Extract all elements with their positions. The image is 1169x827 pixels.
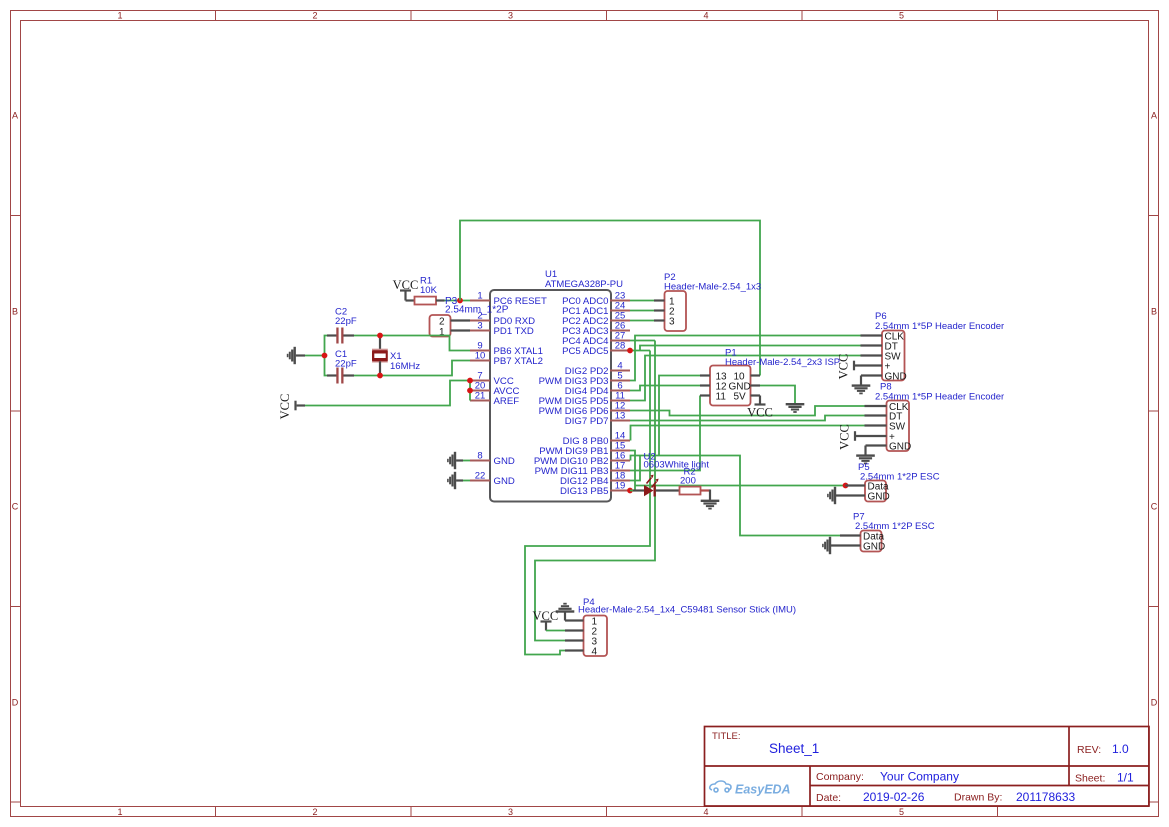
P3 value label <box>445 305 509 316</box>
svg-text:16MHz: 16MHz <box>390 361 420 372</box>
connector P6 body <box>882 331 907 383</box>
wire pin12 to P8 CLK <box>630 406 865 416</box>
microcontroller U1 ATMEGA328P-PU body <box>490 290 611 502</box>
svg-text:PC5 ADC5: PC5 ADC5 <box>562 346 608 357</box>
svg-text:TITLE:: TITLE: <box>712 731 741 742</box>
connector P8 body <box>887 401 912 453</box>
wire P6 CLK net <box>630 336 861 381</box>
svg-text:AREF: AREF <box>494 396 520 407</box>
svg-text:200: 200 <box>680 476 696 487</box>
svg-text:Your Company: Your Company <box>880 770 959 784</box>
wire R1 to node RESET <box>445 300 471 302</box>
U1 pin 22 GND <box>470 471 515 488</box>
P2 pin leads <box>654 301 665 321</box>
svg-text:3: 3 <box>508 807 513 817</box>
ground (P4 pin1) <box>556 603 575 621</box>
svg-text:3: 3 <box>508 11 513 21</box>
svg-text:A: A <box>1151 111 1157 121</box>
svg-text:GND: GND <box>889 441 911 452</box>
C2 reference label <box>335 307 347 318</box>
svg-text:Header-Male-2.54_1x4_C59481 Se: Header-Male-2.54_1x4_C59481 Sensor Stick… <box>578 604 796 615</box>
U1 pin 26 PC3 ADC3 <box>562 321 630 338</box>
node VCC pin7 junction <box>467 378 473 384</box>
svg-text:19: 19 <box>615 481 626 492</box>
P6 value label <box>875 321 1004 332</box>
C2 value label <box>335 316 357 327</box>
wire pin18 riser <box>630 456 640 481</box>
U1 pin 17 PWM DIG11 PB3 <box>535 461 630 478</box>
ground (P5) <box>827 487 836 504</box>
svg-text:Sheet:: Sheet: <box>1075 773 1105 785</box>
ground (crystal) <box>287 347 305 364</box>
svg-text:GND: GND <box>868 491 890 502</box>
wire P1-11 net <box>630 396 700 471</box>
P3 pin leads <box>451 321 471 331</box>
svg-text:2: 2 <box>312 11 317 21</box>
ground (P8) <box>856 446 886 465</box>
wire pin28 to P4-4 <box>525 351 650 655</box>
svg-text:SW: SW <box>889 421 906 432</box>
ground (R2) <box>701 500 720 510</box>
U1 pin 11 PWM DIG5 PD5 <box>539 391 630 408</box>
wire PC1 to P2-2 <box>630 310 654 312</box>
U1 value label <box>545 279 623 290</box>
svg-text:28: 28 <box>615 341 626 352</box>
resistor R2 <box>656 487 710 500</box>
wire pin28 row <box>630 350 650 352</box>
wire RESET to ISP pin10 <box>460 221 760 376</box>
svg-text:PD1 TXD: PD1 TXD <box>494 326 534 337</box>
svg-text:VCC: VCC <box>278 394 292 420</box>
P4 reference label <box>583 597 595 608</box>
svg-text:10K: 10K <box>420 285 438 296</box>
power flag VCC (P6 +) <box>837 354 883 380</box>
P2 reference label <box>664 272 676 283</box>
node pin19 junction <box>627 488 633 494</box>
U1 pin 3 PD1 TXD <box>470 321 534 338</box>
svg-text:2.54mm 1*2P ESC: 2.54mm 1*2P ESC <box>855 521 935 532</box>
U1 pin 6 DIG4 PD4 <box>565 381 630 398</box>
svg-text:ATMEGA328P-PU: ATMEGA328P-PU <box>545 279 623 290</box>
P5 reference label <box>858 462 870 473</box>
R2 value label <box>680 476 696 487</box>
P6 pin leads <box>861 336 883 356</box>
connector P4 body <box>584 616 608 658</box>
node RESET junction <box>457 298 463 304</box>
svg-text:1/1: 1/1 <box>1117 771 1134 785</box>
svg-text:GND: GND <box>494 476 515 487</box>
R1 value label <box>420 285 438 296</box>
U1 pin 10 PB7 XTAL2 <box>470 351 543 368</box>
U1 pin 20 AVCC <box>470 381 520 398</box>
R1 reference label <box>420 276 432 287</box>
U1 pin 5 PWM DIG3 PD3 <box>539 371 630 388</box>
wire VCC rail <box>305 381 470 406</box>
svg-text:22pF: 22pF <box>335 316 357 327</box>
svg-text:2.54mm 1*5P Header Encoder: 2.54mm 1*5P Header Encoder <box>875 392 1004 403</box>
svg-text:10: 10 <box>475 351 486 362</box>
svg-text:1: 1 <box>477 291 482 302</box>
svg-text:5V: 5V <box>734 391 747 402</box>
R2 reference label <box>684 467 696 478</box>
U1 pin 27 PC4 ADC4 <box>562 331 630 348</box>
wire C2 left loop <box>325 336 328 376</box>
power flag VCC (left rail) <box>278 394 305 420</box>
wire pin14 to P8 SW <box>631 426 865 441</box>
svg-text:22: 22 <box>475 471 486 482</box>
U1 pin 28 PC5 ADC5 <box>562 341 630 358</box>
svg-text:0603White light: 0603White light <box>644 459 710 470</box>
capacitor C1 <box>327 368 354 384</box>
U1 pin 19 DIG13 PB5 <box>560 481 630 498</box>
U2 value label <box>644 459 710 470</box>
svg-text:C: C <box>12 502 19 512</box>
svg-text:C: C <box>1151 502 1158 512</box>
wire PC0 to P2-1 <box>630 300 654 302</box>
svg-text:Date:: Date: <box>816 792 841 804</box>
wire pin19 nub <box>630 490 635 492</box>
crystal X1 <box>372 336 388 376</box>
wire PC2 to P2-3 <box>630 320 654 322</box>
power flag VCC (P1 5V) <box>747 396 773 420</box>
svg-text:GND: GND <box>494 456 515 467</box>
wire gnd to loop <box>305 355 325 357</box>
U1 pin 14 DIG 8 PB0 <box>563 431 630 448</box>
svg-text:B: B <box>12 307 18 317</box>
title block <box>705 727 1150 807</box>
svg-text:4: 4 <box>703 11 708 21</box>
X1 reference label <box>390 351 402 362</box>
svg-text:VCC: VCC <box>533 609 559 623</box>
wire C1 to XTAL2 <box>354 361 470 376</box>
P8 value label <box>875 392 1004 403</box>
wire pin15 to P5 Data <box>630 451 846 491</box>
U1 pin 9 PB6 XTAL1 <box>470 341 543 358</box>
wire pin27 to P4-3 <box>535 341 655 641</box>
svg-text:2.54mm 1*2P ESC: 2.54mm 1*2P ESC <box>860 471 940 482</box>
connector P3 body <box>430 315 451 338</box>
svg-text:DIG7 PD7: DIG7 PD7 <box>565 416 609 427</box>
svg-text:2: 2 <box>312 807 317 817</box>
P8 pin leads <box>865 406 887 426</box>
svg-text:2019-02-26: 2019-02-26 <box>863 790 925 804</box>
wire P1 GND to ground <box>760 386 795 404</box>
ground (U1 pin 22) <box>447 472 470 489</box>
svg-text:D: D <box>12 698 19 708</box>
node X1 top junction <box>377 333 383 339</box>
U1 pin 21 AREF <box>470 391 519 408</box>
svg-text:B: B <box>1151 307 1157 317</box>
P8 reference label <box>880 382 892 393</box>
wire P1-13 net <box>659 376 700 456</box>
svg-text:2.54mm_1*2P: 2.54mm_1*2P <box>445 305 509 316</box>
power flag VCC (R1) <box>393 278 419 301</box>
svg-text:5: 5 <box>899 11 904 21</box>
connector P7 body <box>861 531 886 553</box>
svg-text:11: 11 <box>716 391 727 402</box>
svg-text:Header-Male-2.54_1x3: Header-Male-2.54_1x3 <box>664 282 761 293</box>
ground (U1 pin 8) <box>447 452 470 469</box>
svg-text:4: 4 <box>703 807 708 817</box>
X1 value label <box>390 361 420 372</box>
svg-text:Company:: Company: <box>816 771 864 783</box>
node pin28 junction <box>627 348 633 354</box>
wire pin16 to P7 Data <box>631 456 841 536</box>
C1 value label <box>335 359 357 370</box>
U1 pin 23 PC0 ADC0 <box>562 291 630 308</box>
power flag VCC (P4 pin2) <box>533 609 566 631</box>
U1 pin 7 VCC <box>470 371 514 388</box>
P4 value label <box>578 604 796 615</box>
ground (P1) <box>786 403 805 413</box>
U1 pin 8 GND <box>470 451 515 468</box>
svg-text:A: A <box>12 111 18 121</box>
P7 value label <box>855 521 935 532</box>
svg-text:DIG13 PB5: DIG13 PB5 <box>560 486 609 497</box>
U1 pin 16 PWM DIG10 PB2 <box>534 451 630 468</box>
U1 reference label <box>545 269 557 280</box>
P7 reference label <box>853 512 865 523</box>
svg-text:D: D <box>1151 698 1158 708</box>
P1 left pin leads <box>700 376 710 396</box>
U1 pin 25 PC2 ADC2 <box>562 311 630 328</box>
wire pin13 to P8 DT <box>630 416 865 421</box>
resistor R1 <box>406 297 445 305</box>
svg-text:Drawn By:: Drawn By: <box>954 792 1002 804</box>
U2 reference label <box>644 452 656 463</box>
svg-text:2.54mm 1*5P Header Encoder: 2.54mm 1*5P Header Encoder <box>875 321 1004 332</box>
svg-text:VCC: VCC <box>747 406 773 420</box>
P5 pin leads <box>836 486 865 496</box>
svg-text:13: 13 <box>615 411 626 422</box>
svg-text:4: 4 <box>592 647 598 658</box>
P1 value label <box>725 357 840 368</box>
P1 reference label <box>725 348 737 359</box>
node crystal-gnd junction <box>322 353 328 359</box>
P5 value label <box>860 471 940 482</box>
svg-text:VCC: VCC <box>393 278 419 292</box>
wire P1-12 net <box>630 386 700 391</box>
node X1 bottom junction <box>377 373 383 379</box>
U1 pin 2 PD0 RXD <box>470 311 535 328</box>
P4 pin leads <box>565 621 584 651</box>
P1 right pin leads <box>751 376 761 396</box>
wire pin27 row <box>630 340 655 342</box>
U1 pin 24 PC1 ADC1 <box>562 301 630 318</box>
svg-text:1.0: 1.0 <box>1112 742 1129 756</box>
ground (P7) <box>822 537 831 554</box>
svg-text:22pF: 22pF <box>335 359 357 370</box>
ground (P6) <box>852 376 882 395</box>
svg-text:5: 5 <box>899 807 904 817</box>
U1 pin 15 PWM DIG9 PB1 <box>539 441 630 458</box>
U1 pin 12 PWM DIG6 PD6 <box>539 401 630 418</box>
svg-text:Sheet_1: Sheet_1 <box>769 741 819 756</box>
node AVCC pin20 junction <box>467 388 473 394</box>
wire C2 to XTAL1 <box>354 336 470 351</box>
svg-text:8: 8 <box>477 451 482 462</box>
connector P2 body <box>665 291 687 331</box>
capacitor C2 <box>327 328 354 344</box>
wire P6 SW net <box>630 356 861 401</box>
svg-text:Header-Male-2.54_2x3 ISP: Header-Male-2.54_2x3 ISP <box>725 357 840 368</box>
svg-text:21: 21 <box>475 391 486 402</box>
svg-text:3: 3 <box>477 321 482 332</box>
svg-text:VCC: VCC <box>837 354 851 380</box>
P2 value label <box>664 282 761 293</box>
node P5 Data junction <box>843 483 849 489</box>
U1 pin 1 PC6 RESET <box>470 291 547 308</box>
svg-text:VCC: VCC <box>838 424 852 450</box>
LED U2 <box>633 475 659 497</box>
power flag VCC (P8 +) <box>838 424 887 450</box>
wire P6 DT net <box>640 346 861 351</box>
svg-text:PB7 XTAL2: PB7 XTAL2 <box>494 356 543 367</box>
U1 pin 18 DIG12 PB4 <box>560 471 630 488</box>
C1 reference label <box>335 349 347 360</box>
svg-text:1: 1 <box>117 807 122 817</box>
svg-text:201178633: 201178633 <box>1016 790 1076 804</box>
connector P5 body <box>865 481 890 503</box>
svg-text:REV:: REV: <box>1077 744 1101 756</box>
svg-text:GND: GND <box>863 541 885 552</box>
EasyEDA logo <box>710 781 791 797</box>
P7 pin leads <box>831 536 861 546</box>
U1 pin 13 DIG7 PD7 <box>565 411 630 428</box>
svg-text:1: 1 <box>117 11 122 21</box>
P3 reference label <box>445 296 458 307</box>
svg-text:3: 3 <box>669 317 675 328</box>
connector P1 body <box>710 366 751 406</box>
svg-text:EasyEDA: EasyEDA <box>735 783 791 797</box>
P6 reference label <box>875 311 887 322</box>
U1 pin 4 DIG2 PD2 <box>565 361 630 378</box>
